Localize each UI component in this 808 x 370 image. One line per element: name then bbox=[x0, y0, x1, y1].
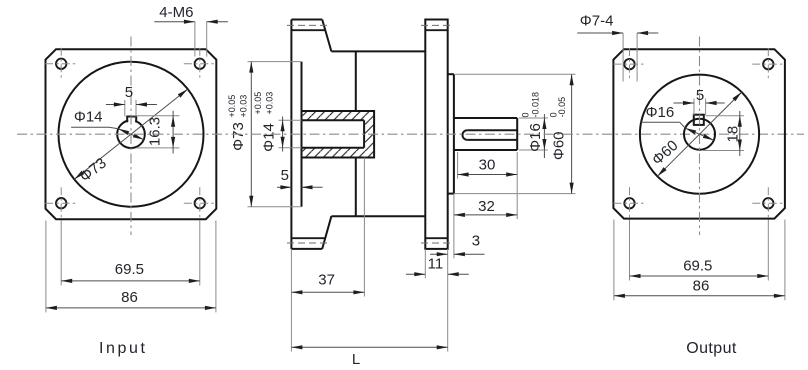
dimension Φ73 bore (section) bbox=[248, 61, 302, 63]
output shaft keyway slot (section) bbox=[467, 129, 517, 131]
svg-text:4-M6: 4-M6 bbox=[159, 4, 193, 21]
svg-text:11: 11 bbox=[428, 256, 444, 273]
hole crosshair top-right (output) bbox=[752, 63, 784, 65]
dimension 16.3 keyway depth (input) bbox=[132, 115, 180, 117]
svg-text:Input: Input bbox=[99, 340, 148, 357]
hole crosshair bottom-right (input) bbox=[184, 202, 216, 204]
svg-text:0: 0 bbox=[521, 112, 531, 117]
svg-text:+0.05: +0.05 bbox=[227, 95, 237, 118]
input flange body circle (Φ73 face) bbox=[59, 62, 204, 207]
svg-text:+0.03: +0.03 bbox=[239, 95, 249, 118]
svg-text:5: 5 bbox=[125, 84, 133, 101]
svg-text:+0.05: +0.05 bbox=[253, 92, 263, 115]
dimension Φ16 leader and arrows (output) bbox=[685, 128, 714, 140]
dimension 86 flange width (input) bbox=[45, 221, 47, 313]
svg-text:86: 86 bbox=[121, 289, 138, 306]
svg-text:Φ7-4: Φ7-4 bbox=[580, 12, 614, 29]
input pilot recess step line Φ73 (section) bbox=[301, 62, 303, 207]
dimension Φ14 leader and arrows (input) bbox=[118, 129, 143, 140]
dimension 5 keyway width (input) bbox=[124, 100, 126, 117]
input view vertical centerline bbox=[130, 37, 132, 236]
input flange face line (section) bbox=[290, 20, 292, 249]
svg-text:69.5: 69.5 bbox=[115, 261, 144, 278]
svg-text:86: 86 bbox=[693, 277, 710, 294]
gearbox body top edge (section) bbox=[331, 50, 425, 52]
input shaft bore circle Φ14 bbox=[117, 120, 145, 148]
output flange outline (section) bbox=[425, 20, 447, 249]
output shaft Φ16 (section) bbox=[454, 117, 517, 119]
hole crosshair bottom-left (input) bbox=[45, 202, 77, 204]
svg-text:Output: Output bbox=[686, 340, 737, 357]
svg-text:Φ16: Φ16 bbox=[646, 104, 675, 121]
svg-text:L: L bbox=[352, 351, 360, 368]
output flange mounting hole Φ7 bottom-right bbox=[763, 198, 773, 208]
dimension 32 shaft length (section) bbox=[454, 214, 517, 216]
output flange square outline bbox=[613, 49, 785, 218]
svg-text:16.3: 16.3 bbox=[147, 117, 164, 146]
input flange bolt hole top (section) bbox=[291, 29, 325, 31]
output pilot boss Φ60 (section) bbox=[448, 73, 454, 75]
dimension 5 keyway width (output) bbox=[693, 99, 695, 116]
input flange mounting hole M6 top-right bbox=[195, 59, 205, 69]
output body circle Φ60 (face) bbox=[640, 75, 759, 194]
input coupling sleeve outline (section) bbox=[302, 111, 375, 158]
hole crosshair top-left (output) bbox=[614, 63, 646, 65]
hole crosshair bottom-right (output) bbox=[752, 202, 784, 204]
input keyway outline bbox=[126, 116, 137, 118]
input flange square outline bbox=[46, 49, 217, 219]
svg-text:5: 5 bbox=[281, 167, 289, 184]
svg-text:+0.03: +0.03 bbox=[265, 92, 275, 115]
output view vertical centerline bbox=[699, 37, 701, 236]
svg-text:32: 32 bbox=[478, 198, 495, 215]
svg-text:-0.05: -0.05 bbox=[557, 97, 567, 118]
input flange bottom edge (section) bbox=[291, 248, 322, 250]
dimension Φ14 bore (section) bbox=[279, 119, 302, 121]
svg-text:5: 5 bbox=[696, 87, 704, 104]
svg-text:Φ14: Φ14 bbox=[261, 123, 278, 152]
input flange top edge (section) bbox=[291, 19, 322, 21]
output flange bolt hole top (section) bbox=[425, 29, 447, 31]
output keyway outline bbox=[694, 115, 704, 125]
dimension 69.5 hole spacing (input) bbox=[60, 221, 62, 286]
dimension Φ73 diagonal line (input) bbox=[74, 89, 187, 179]
output shaft bore circle Φ16 bbox=[684, 119, 715, 150]
input flange bottom chamfer (section) bbox=[322, 216, 331, 249]
dimension L overall length (section) bbox=[447, 249, 449, 352]
svg-text:3: 3 bbox=[472, 233, 480, 250]
dimension 30 keyway length (section) bbox=[457, 152, 459, 179]
svg-text:Φ73: Φ73 bbox=[230, 122, 247, 151]
hole crosshair top-left (input) bbox=[45, 63, 77, 65]
hole crosshair bottom-left (output) bbox=[614, 202, 646, 204]
output flange bolt hole bottom (section) bbox=[425, 237, 447, 239]
hole crosshair top-right (input) bbox=[184, 63, 216, 65]
dimension Φ60 diagonal line (output) bbox=[657, 92, 741, 176]
dimension 5 recess depth (section) bbox=[277, 186, 291, 188]
input flange top chamfer (section) bbox=[322, 20, 331, 52]
dimension Φ60 boss (section) bbox=[455, 73, 576, 75]
gearbox internal joint line (section) bbox=[355, 51, 357, 111]
dimension 86 flange width (output) bbox=[613, 220, 615, 301]
output flange mounting hole Φ7 bottom-left bbox=[624, 198, 634, 208]
svg-text:Φ14: Φ14 bbox=[74, 109, 103, 126]
dimension 37 (section) bbox=[290, 249, 292, 352]
dimension 18 keyway depth (output) bbox=[706, 115, 744, 117]
output flange mounting hole Φ7 top-left bbox=[624, 59, 634, 69]
input keyway mask bbox=[128, 115, 135, 127]
main horizontal centerline (axis) bbox=[17, 133, 804, 135]
gearbox body bottom edge (section) bbox=[331, 215, 425, 217]
input bore Φ14 lines (section) bbox=[302, 119, 365, 121]
svg-text:Φ60: Φ60 bbox=[550, 131, 567, 160]
input flange mounting hole M6 bottom-left bbox=[56, 198, 66, 208]
input flange mounting hole M6 top-left bbox=[56, 59, 66, 69]
svg-text:18: 18 bbox=[724, 126, 741, 143]
input flange mounting hole M6 bottom-right bbox=[195, 198, 205, 208]
svg-text:Φ16: Φ16 bbox=[527, 123, 544, 152]
svg-text:37: 37 bbox=[318, 272, 335, 289]
dimension 69.5 hole spacing (output) bbox=[629, 220, 631, 281]
dimension Φ16 shaft (section) bbox=[519, 117, 548, 119]
output flange mounting hole Φ7 top-right bbox=[763, 59, 773, 69]
input coupling sleeve hatching (section) bbox=[302, 111, 375, 120]
svg-text:30: 30 bbox=[479, 156, 496, 173]
svg-text:-0.018: -0.018 bbox=[530, 92, 540, 118]
dimension 3 boss length (section) bbox=[453, 194, 455, 259]
input flange bolt hole bottom (section) bbox=[291, 237, 325, 239]
dimension 11 output flange thickness (section) bbox=[424, 249, 426, 278]
svg-text:69.5: 69.5 bbox=[683, 258, 712, 275]
